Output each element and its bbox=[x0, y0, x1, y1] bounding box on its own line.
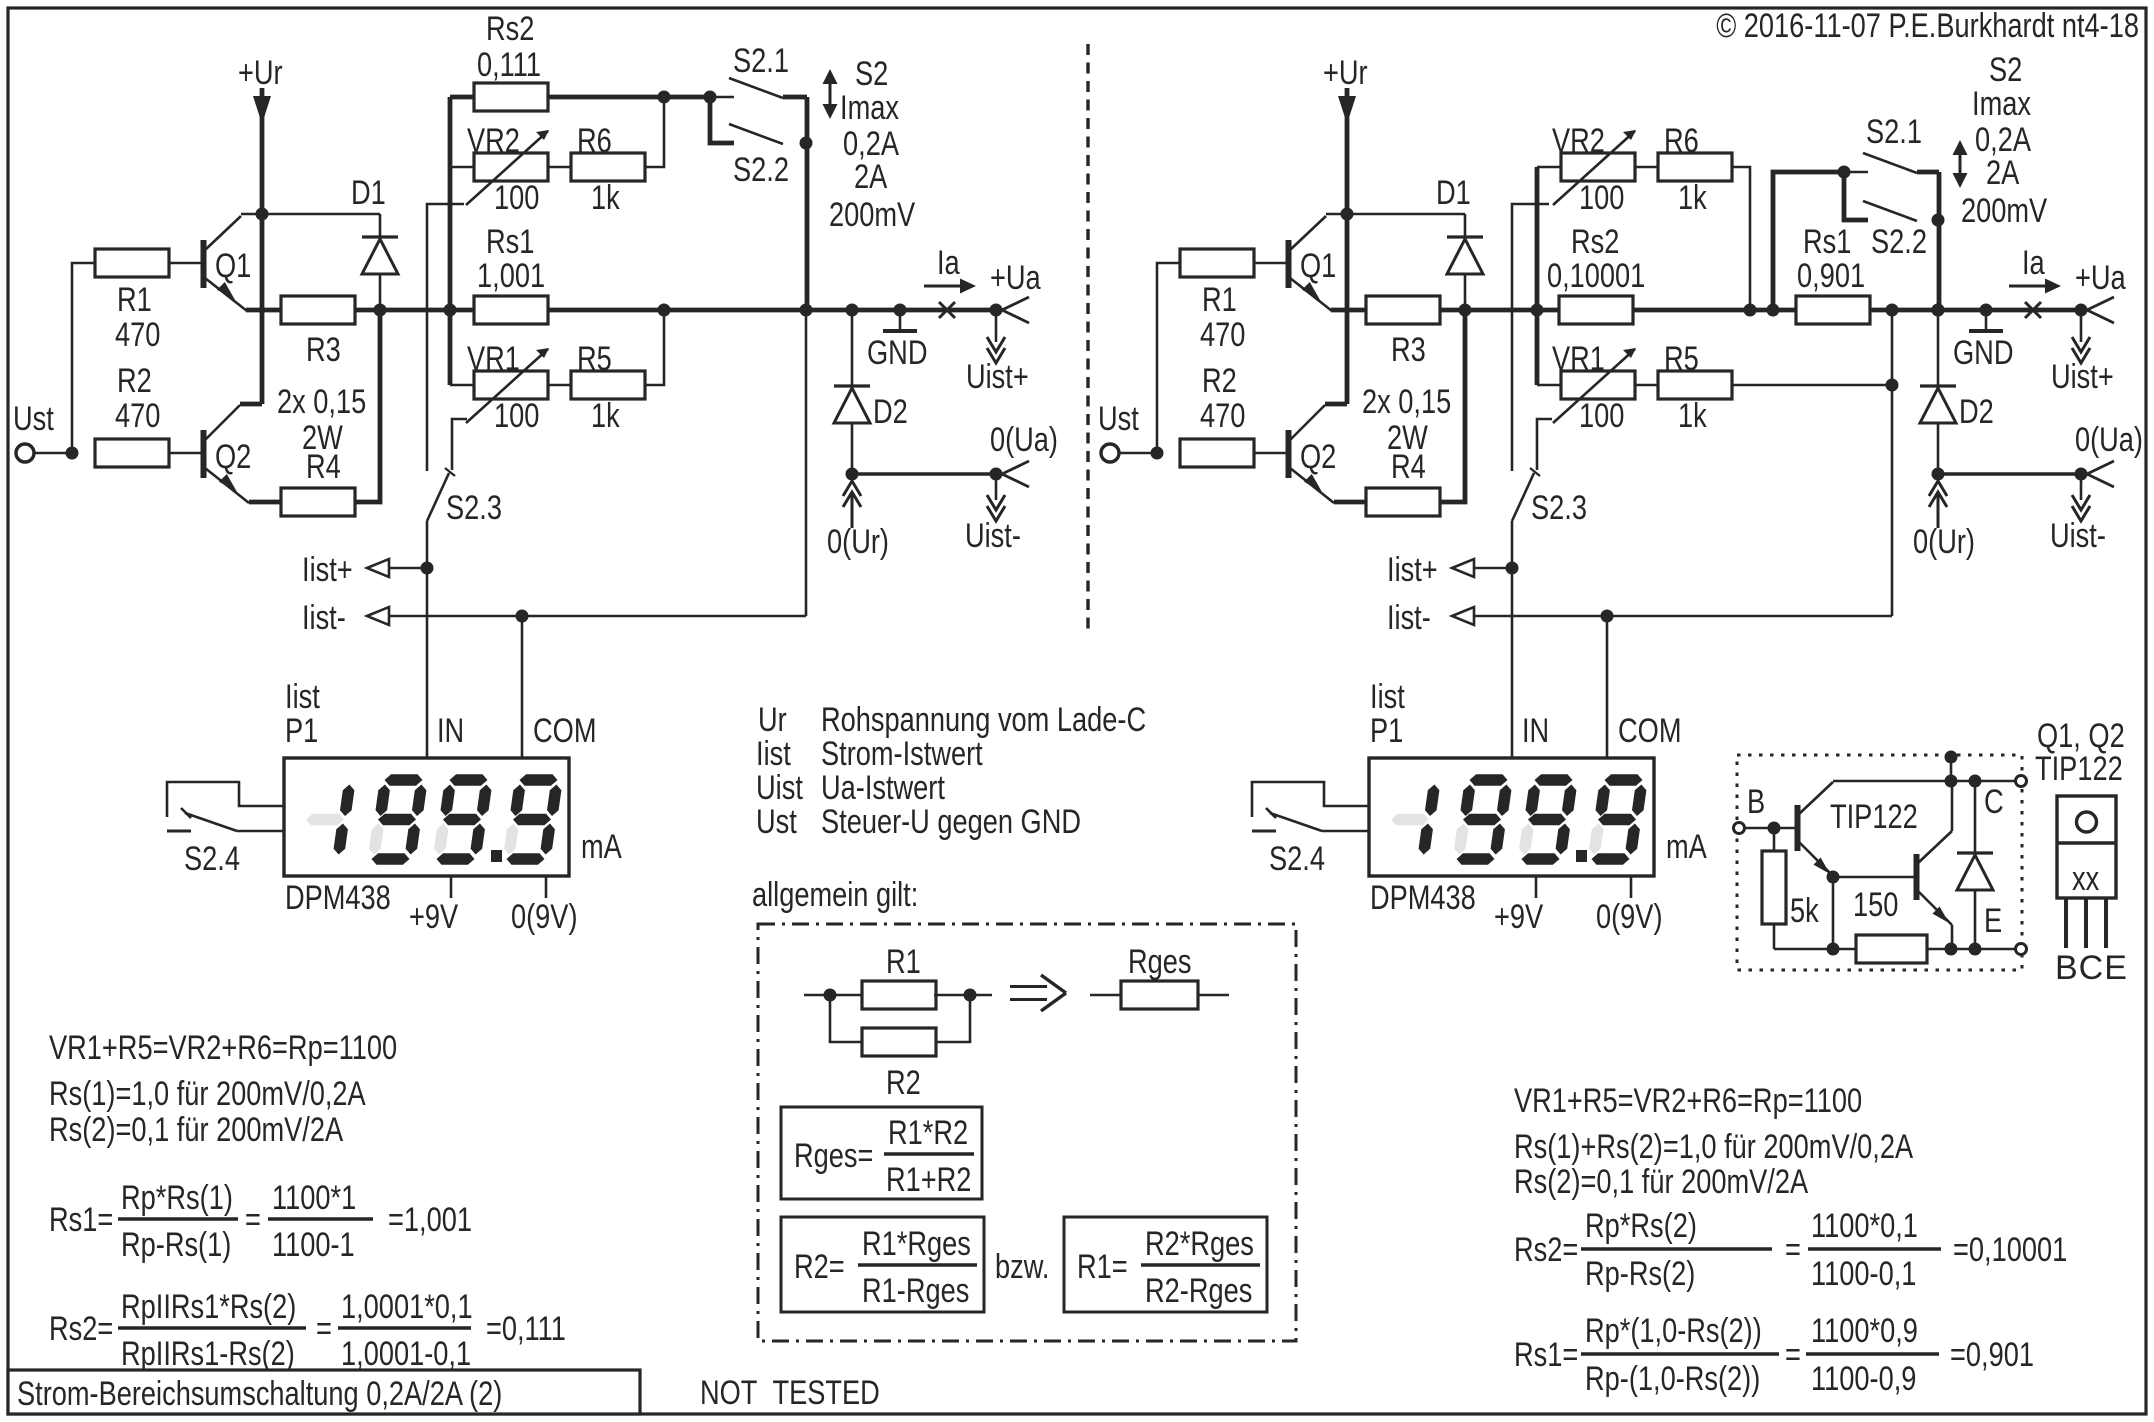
svg-text:Iist-: Iist- bbox=[302, 599, 346, 637]
svg-text:Rs(1)=1,0 für 200mV/0,2A: Rs(1)=1,0 für 200mV/0,2A bbox=[49, 1075, 366, 1113]
svg-text:R1: R1 bbox=[1202, 281, 1237, 319]
junction dot collector node (left) bbox=[256, 208, 269, 221]
svg-text:Ur: Ur bbox=[758, 701, 787, 739]
svg-text:R1*R2: R1*R2 bbox=[888, 1114, 968, 1152]
svg-text:Uist+: Uist+ bbox=[2051, 358, 2114, 396]
symbol measuring point X (right) bbox=[2025, 302, 2041, 318]
svg-text:E: E bbox=[1984, 902, 2002, 940]
svg-text:100: 100 bbox=[494, 179, 539, 217]
svg-text:IN: IN bbox=[1522, 712, 1549, 750]
resistor R3 (right) bbox=[1366, 296, 1440, 324]
wire T1 emitter to 150 rail bbox=[1832, 877, 1835, 949]
resistor R2 (right) bbox=[1180, 439, 1254, 467]
junction dot D2/0(Ua) (left) bbox=[846, 468, 859, 481]
wire VR1 left lead (right) bbox=[1537, 384, 1561, 387]
transistor Q1 (left) bbox=[204, 214, 263, 311]
wire VR1 left lead (left) bbox=[450, 384, 474, 387]
diode D2 (right) bbox=[1920, 310, 1956, 474]
node Ust input terminal (right) bbox=[1101, 444, 1119, 462]
svg-text:P1: P1 bbox=[1370, 712, 1403, 750]
svg-text:mA: mA bbox=[581, 828, 622, 866]
box formula Rges bbox=[781, 1107, 982, 1199]
svg-text:COM: COM bbox=[533, 712, 597, 750]
resistor R4 (left) bbox=[281, 488, 355, 516]
svg-text:RpIIRs1*Rs(2): RpIIRs1*Rs(2) bbox=[121, 1288, 296, 1326]
svg-text:S2.4: S2.4 bbox=[1269, 840, 1325, 878]
junction dot R6 drop (right) bbox=[1744, 304, 1757, 317]
junction dot S2.1 contact (right) bbox=[1838, 166, 1851, 179]
wire R3 to D1 node (left) bbox=[355, 308, 380, 313]
switch S2.1 (left) bbox=[710, 78, 807, 98]
svg-text:R5: R5 bbox=[577, 340, 612, 378]
symbol Uist+ sense arrow (right) bbox=[2072, 310, 2090, 363]
wire COM drop (right) bbox=[1606, 616, 1609, 758]
wire R6 drop to rail (right) bbox=[1732, 167, 1750, 310]
transistor T1 TIP122 bbox=[1798, 782, 1834, 876]
formula Rs1 equation (left) bbox=[49, 1179, 472, 1264]
meter display digits 199.9 (right) bbox=[1391, 774, 1646, 865]
junction dot Iist+ (left) bbox=[421, 562, 434, 575]
svg-text:D2: D2 bbox=[873, 393, 908, 431]
wire sense drop to list- (right) bbox=[1891, 310, 1894, 616]
formula Rs2 equation (right) bbox=[1514, 1207, 2067, 1293]
wire Rges right lead bbox=[1198, 994, 1229, 997]
wire VR1 wiper tap (left) bbox=[452, 419, 467, 470]
wire B to base bbox=[1745, 827, 1796, 830]
junction dot D1/R3/R4 node (right) bbox=[1459, 304, 1472, 317]
junction dot R5 riser (left) bbox=[658, 304, 671, 317]
svg-text:R1: R1 bbox=[886, 943, 921, 981]
svg-text:R2: R2 bbox=[886, 1064, 921, 1102]
node B terminal TIP122 bbox=[1734, 823, 1745, 834]
wire Rs2 left lead (left) bbox=[450, 95, 474, 100]
junction dot S2/rail (left) bbox=[800, 304, 813, 317]
svg-text:Uist: Uist bbox=[756, 769, 803, 807]
wire R2 to Q2 base (left) bbox=[169, 452, 202, 455]
svg-text:mA: mA bbox=[1666, 828, 1707, 866]
wire Q1 emitter rail (left) bbox=[246, 308, 281, 313]
svg-text:1100*0,1: 1100*0,1 bbox=[1811, 1207, 1918, 1245]
resistor R6 (left) bbox=[571, 153, 645, 181]
svg-text:+Ua: +Ua bbox=[2075, 259, 2126, 297]
formula Rs1 equation (right) bbox=[1514, 1312, 2034, 1398]
svg-text:+Ur: +Ur bbox=[1323, 54, 1368, 92]
junction dot T1 emitter/T2 base bbox=[1827, 871, 1840, 884]
svg-text:=: = bbox=[1785, 1336, 1801, 1374]
junction dot S2 branch (left) bbox=[704, 91, 717, 104]
node Iist+ arrow (right) bbox=[1452, 559, 1512, 577]
wire Q2 emitter to R4 (left) bbox=[249, 500, 281, 505]
svg-text:D1: D1 bbox=[1436, 174, 1471, 212]
wire R2 to Q2 base (right) bbox=[1254, 452, 1287, 455]
svg-text:R3: R3 bbox=[1391, 331, 1426, 369]
svg-text:+9V: +9V bbox=[1494, 898, 1543, 936]
switch S2.1 (right) bbox=[1844, 153, 1939, 173]
node Iist- arrow (left) bbox=[367, 607, 389, 625]
resistor R5 (left) bbox=[571, 371, 645, 399]
wire Rs2/VR branch vertical (left) bbox=[448, 97, 453, 385]
pin 0(9V) stub (right) bbox=[1630, 876, 1633, 898]
junction dot demo right bbox=[964, 989, 977, 1002]
junction dot Iist+ (right) bbox=[1506, 562, 1519, 575]
svg-text:Rs(2)=0,1 für 200mV/2A: Rs(2)=0,1 für 200mV/2A bbox=[49, 1111, 343, 1149]
wire S2 bridge right vertical (right) bbox=[1937, 172, 1942, 310]
svg-text:R2: R2 bbox=[1202, 362, 1237, 400]
node Iist+ arrow (left) bbox=[367, 559, 427, 577]
symbol Uist- sense arrow (left) bbox=[987, 474, 1005, 521]
svg-text:DPM438: DPM438 bbox=[1370, 879, 1476, 917]
switch S2.3 (right) bbox=[1512, 468, 1540, 521]
wire R2 demo loop bbox=[830, 995, 970, 1042]
transistor Q1 (right) bbox=[1289, 214, 1348, 311]
svg-text:1k: 1k bbox=[591, 179, 620, 217]
svg-text:Imax: Imax bbox=[1972, 85, 2031, 123]
svg-text:IN: IN bbox=[437, 712, 464, 750]
symbol 0(Ur) arrow (left) bbox=[843, 481, 861, 528]
wire IN drop (right) bbox=[1511, 568, 1514, 758]
wire IN drop (left) bbox=[426, 568, 429, 758]
svg-text:RpIIRs1-Rs(2): RpIIRs1-Rs(2) bbox=[121, 1335, 295, 1373]
node +Ua terminal (left) bbox=[990, 297, 1030, 323]
junction dot T2 emitter bbox=[1945, 943, 1958, 956]
svg-text:VR2: VR2 bbox=[467, 122, 520, 160]
wire R3 to D1 node (right) bbox=[1440, 308, 1465, 313]
svg-text:S2.4: S2.4 bbox=[184, 840, 240, 878]
svg-text:2x 0,15: 2x 0,15 bbox=[1362, 383, 1451, 421]
box title block bbox=[8, 1370, 640, 1414]
svg-text:1,001: 1,001 bbox=[477, 257, 545, 295]
svg-text:1100*1: 1100*1 bbox=[272, 1179, 356, 1217]
symbol 0(Ur) arrow (right) bbox=[1929, 481, 1947, 528]
svg-text:BCE: BCE bbox=[2055, 949, 2128, 987]
svg-text:xx: xx bbox=[2072, 860, 2099, 898]
wire S2.3 to Iist+ node (right) bbox=[1511, 521, 1514, 568]
node E terminal TIP122 bbox=[2016, 944, 2027, 955]
resistor Rs1 (right) bbox=[1796, 296, 1870, 324]
svg-text:2x 0,15: 2x 0,15 bbox=[277, 383, 366, 421]
wire Ust to junction (right) bbox=[1119, 452, 1157, 455]
svg-text:DPM438: DPM438 bbox=[285, 879, 391, 917]
svg-text:R1-Rges: R1-Rges bbox=[862, 1272, 969, 1310]
svg-text:150: 150 bbox=[1853, 886, 1898, 924]
svg-text:Q2: Q2 bbox=[1300, 438, 1336, 476]
junction dot Rs branch (left) bbox=[444, 304, 457, 317]
wire Iist- row (left) bbox=[389, 615, 806, 618]
switch S2.4 (left) bbox=[167, 782, 284, 831]
svg-text:=0,901: =0,901 bbox=[1950, 1336, 2034, 1374]
resistor 5k TIP122 bbox=[1762, 851, 1786, 924]
wire R1 demo right lead bbox=[934, 994, 992, 997]
svg-text:VR1+R5=VR2+R6=Rp=1100: VR1+R5=VR2+R6=Rp=1100 bbox=[1514, 1082, 1862, 1120]
svg-text:100: 100 bbox=[494, 397, 539, 435]
wire T2 collector riser bbox=[1951, 781, 1954, 831]
svg-text:VR1: VR1 bbox=[1552, 340, 1605, 378]
wire R4 up to rail (right) bbox=[1440, 310, 1465, 502]
svg-text:200mV: 200mV bbox=[1961, 192, 2047, 230]
svg-text:Uist-: Uist- bbox=[965, 517, 1021, 555]
svg-text:R2*Rges: R2*Rges bbox=[1145, 1225, 1254, 1263]
svg-text:Rp-Rs(1): Rp-Rs(1) bbox=[121, 1226, 231, 1264]
wire R5 riser to rail (left) bbox=[645, 310, 664, 385]
svg-text:Iist: Iist bbox=[756, 735, 791, 773]
svg-text:R6: R6 bbox=[1664, 122, 1699, 160]
svg-text:Ust: Ust bbox=[13, 400, 54, 438]
node C terminal TIP122 bbox=[2016, 776, 2027, 787]
wire rail Rs2 to Rs1 (right) bbox=[1633, 308, 1796, 313]
wire R1 to Q1 base (right) bbox=[1254, 262, 1287, 265]
svg-text:S2.1: S2.1 bbox=[733, 42, 789, 80]
junction dot D2 branch (right) bbox=[1932, 304, 1945, 317]
switch S2.4 (right) bbox=[1252, 782, 1369, 831]
svg-text:470: 470 bbox=[1200, 397, 1245, 435]
svg-text:TIP122: TIP122 bbox=[1830, 798, 1918, 836]
svg-text:Strom-Istwert: Strom-Istwert bbox=[821, 735, 983, 773]
wire VR2 wiper drop (right) bbox=[1512, 204, 1549, 471]
svg-text:bzw.: bzw. bbox=[995, 1248, 1049, 1286]
symbol Ia current arrow (right) bbox=[2009, 279, 2061, 294]
svg-text:© 2016-11-07 P.E.Burkhardt nt4: © 2016-11-07 P.E.Burkhardt nt4-18 bbox=[1716, 7, 2139, 45]
potentiometer VR1 (left) bbox=[466, 348, 549, 423]
junction dot R5/sense (right) bbox=[1886, 379, 1899, 392]
svg-text:P1: P1 bbox=[285, 712, 318, 750]
svg-text:1,0001-0,1: 1,0001-0,1 bbox=[341, 1335, 471, 1373]
symbol Ia current arrow (left) bbox=[924, 279, 976, 294]
wire list- drop (left) bbox=[805, 310, 808, 616]
box formula R2 bbox=[781, 1217, 984, 1312]
node 0(Ua) terminal (left) bbox=[990, 461, 1030, 487]
box TIP122 internal schematic dotted frame bbox=[1737, 755, 2022, 970]
svg-text:R1=: R1= bbox=[1077, 1248, 1128, 1286]
svg-text:Iist: Iist bbox=[1370, 678, 1405, 716]
wire VR2 left lead (left) bbox=[450, 166, 474, 169]
svg-text:Rges=: Rges= bbox=[794, 1137, 873, 1175]
svg-text:Ust: Ust bbox=[1098, 400, 1139, 438]
wire S2 bridge left vertical (right) bbox=[1773, 172, 1844, 310]
wire Q1 emitter rail (right) bbox=[1331, 308, 1366, 313]
svg-text:1k: 1k bbox=[1678, 397, 1707, 435]
svg-text:R1*Rges: R1*Rges bbox=[862, 1225, 971, 1263]
svg-text:S2.2: S2.2 bbox=[733, 151, 789, 189]
ground GND symbol (left) bbox=[883, 310, 917, 331]
svg-text:S2.1: S2.1 bbox=[1866, 113, 1922, 151]
wire Ust to junction (left) bbox=[34, 452, 72, 455]
svg-text:0,111: 0,111 bbox=[477, 46, 541, 84]
svg-text:Rs2: Rs2 bbox=[486, 10, 534, 48]
svg-text:R4: R4 bbox=[1391, 448, 1426, 486]
svg-text:=: = bbox=[1785, 1231, 1801, 1269]
svg-text:200mV: 200mV bbox=[829, 196, 915, 234]
svg-text:Q2: Q2 bbox=[215, 438, 251, 476]
resistor R3 (left) bbox=[281, 296, 355, 324]
svg-text:0(9V): 0(9V) bbox=[1596, 898, 1663, 936]
svg-text:Rp*Rs(2): Rp*Rs(2) bbox=[1585, 1207, 1697, 1245]
svg-text:S2: S2 bbox=[855, 55, 888, 93]
svg-text:2A: 2A bbox=[854, 158, 888, 196]
formula R1 = R2*Rges / R2-Rges bbox=[1077, 1225, 1260, 1310]
resistor R1 (right) bbox=[1180, 249, 1254, 277]
svg-text:Rp*(1,0-Rs(2)): Rp*(1,0-Rs(2)) bbox=[1585, 1312, 1762, 1350]
wire R4 up to rail (left) bbox=[355, 310, 380, 502]
svg-text:GND: GND bbox=[1953, 334, 2014, 372]
power +Ur arrow (left) bbox=[240, 88, 271, 404]
symbol S2 range arrow (right) bbox=[1953, 140, 1968, 188]
svg-text:R1+R2: R1+R2 bbox=[886, 1161, 971, 1199]
svg-text:Rs(1)+Rs(2)=1,0 für 200mV/0,2A: Rs(1)+Rs(2)=1,0 für 200mV/0,2A bbox=[1514, 1128, 1913, 1166]
divider dashed line between circuits bbox=[1086, 44, 1089, 630]
wire VR2 to R6 (right) bbox=[1635, 166, 1658, 169]
svg-text:=0,10001: =0,10001 bbox=[1953, 1231, 2067, 1269]
resistor R5 (right) bbox=[1658, 371, 1732, 399]
svg-text:Rp-(1,0-Rs(2)): Rp-(1,0-Rs(2)) bbox=[1585, 1360, 1760, 1398]
junction dot S2.2 contact (right) bbox=[1932, 214, 1945, 227]
node Iist- arrow (right) bbox=[1452, 607, 1474, 625]
svg-text:C: C bbox=[1984, 783, 2004, 821]
svg-text:=: = bbox=[245, 1201, 261, 1239]
svg-text:R2=: R2= bbox=[794, 1248, 845, 1286]
svg-text:1100*0,9: 1100*0,9 bbox=[1811, 1312, 1918, 1350]
formula Rges = R1*R2 / R1+R2 bbox=[794, 1114, 974, 1199]
resistor Rges demo bbox=[1121, 981, 1198, 1009]
junction dot diode bottom bbox=[1969, 943, 1982, 956]
svg-text:TIP122: TIP122 bbox=[2035, 750, 2123, 788]
svg-text:Strom-Bereichsumschaltung 0,2A: Strom-Bereichsumschaltung 0,2A/2A (2) bbox=[17, 1375, 502, 1413]
junction dot base/5k bbox=[1768, 822, 1781, 835]
svg-text:Q1: Q1 bbox=[1300, 247, 1336, 285]
svg-text:Uist+: Uist+ bbox=[966, 358, 1029, 396]
node +Ua terminal (right) bbox=[2075, 297, 2115, 323]
meter P1 DPM438 body (right) bbox=[1369, 758, 1654, 876]
svg-text:Rs2=: Rs2= bbox=[49, 1310, 113, 1348]
box formula R1 bbox=[1064, 1217, 1267, 1312]
svg-text:+Ua: +Ua bbox=[990, 259, 1041, 297]
svg-text:R3: R3 bbox=[306, 331, 341, 369]
switch S2.2 (left) bbox=[710, 97, 783, 144]
resistor Rs1 (left) bbox=[474, 296, 548, 324]
svg-text:0(Ur): 0(Ur) bbox=[1913, 523, 1975, 561]
svg-text:Rp-Rs(2): Rp-Rs(2) bbox=[1585, 1255, 1695, 1293]
svg-text:Steuer-U gegen GND: Steuer-U gegen GND bbox=[821, 803, 1081, 841]
wire R5 to sense drop (right) bbox=[1732, 384, 1892, 387]
node 0(Ua) terminal (right) bbox=[2075, 461, 2115, 487]
junction dot sense drop rail (right) bbox=[1886, 304, 1899, 317]
svg-text:Rp*Rs(1): Rp*Rs(1) bbox=[121, 1179, 233, 1217]
wire rail to Rs branch (left) bbox=[380, 308, 474, 313]
resistor R6 (right) bbox=[1658, 153, 1732, 181]
svg-text:S2.3: S2.3 bbox=[446, 489, 502, 527]
svg-text:=0,111: =0,111 bbox=[486, 1310, 566, 1348]
junction dot R6 riser (left) bbox=[658, 91, 671, 104]
svg-text:D1: D1 bbox=[351, 174, 386, 212]
wire bottom rail TIP122 bbox=[1774, 948, 2016, 951]
svg-text:Rges: Rges bbox=[1128, 943, 1192, 981]
svg-text:NOT TESTED: NOT TESTED bbox=[700, 1374, 880, 1412]
diode internal TIP122 bbox=[1957, 781, 1993, 949]
svg-text:B: B bbox=[1747, 783, 1765, 821]
svg-text:100: 100 bbox=[1579, 397, 1624, 435]
wire Rs2 to switch (left) bbox=[548, 95, 710, 100]
junction dot T2 collector bbox=[1945, 775, 1958, 788]
symbol double arrow implies bbox=[1010, 975, 1066, 1011]
wire 0(Ua) row (left) bbox=[852, 472, 996, 475]
power +Ur arrow (right) bbox=[1325, 88, 1356, 404]
wire 5k leads bbox=[1773, 828, 1776, 949]
wire R1 to Q1 base (left) bbox=[169, 262, 202, 265]
svg-text:R4: R4 bbox=[306, 448, 341, 486]
symbol TO-220 package bbox=[2057, 796, 2116, 948]
svg-text:D2: D2 bbox=[1959, 393, 1994, 431]
wire rail Rs1 to output (left) bbox=[548, 308, 996, 313]
svg-text:S2: S2 bbox=[1989, 51, 2022, 89]
svg-text:0(Ua): 0(Ua) bbox=[990, 421, 1058, 459]
svg-text:1k: 1k bbox=[591, 397, 620, 435]
transistor Q2 (left) bbox=[204, 405, 250, 503]
svg-text:Imax: Imax bbox=[840, 89, 899, 127]
junction dot COM drop (left) bbox=[516, 610, 529, 623]
svg-text:100: 100 bbox=[1579, 179, 1624, 217]
wire Rges left lead bbox=[1090, 994, 1121, 997]
junction dot diode top bbox=[1969, 775, 1982, 788]
wire riser to R1 (right) bbox=[1157, 263, 1180, 453]
svg-text:R6: R6 bbox=[577, 122, 612, 160]
resistor Rs2 (left) bbox=[474, 83, 548, 111]
meter P1 DPM438 body (left) bbox=[284, 758, 569, 876]
svg-text:0,10001: 0,10001 bbox=[1547, 257, 1645, 295]
diode D2 (left) bbox=[834, 310, 870, 474]
meter display digits 199.9 (left) bbox=[306, 774, 561, 865]
svg-text:Iist-: Iist- bbox=[1387, 599, 1431, 637]
wire R6 riser to Rs2 row (left) bbox=[645, 97, 664, 167]
wire riser to R1 (left) bbox=[72, 263, 95, 453]
svg-text:Rs2=: Rs2= bbox=[1514, 1231, 1578, 1269]
junction dot COM drop (right) bbox=[1601, 610, 1614, 623]
wire S2 vertical to rail (left) bbox=[805, 97, 810, 310]
svg-text:Ua-Istwert: Ua-Istwert bbox=[821, 769, 945, 807]
svg-text:0(Ua): 0(Ua) bbox=[2075, 421, 2143, 459]
svg-text:VR1: VR1 bbox=[467, 340, 520, 378]
svg-text:R5: R5 bbox=[1664, 340, 1699, 378]
wire Q2 emitter to R4 (right) bbox=[1334, 500, 1366, 505]
symbol Uist- sense arrow (right) bbox=[2072, 474, 2090, 521]
resistor R2 (left) bbox=[95, 439, 169, 467]
junction dot S2 branch (right) bbox=[1767, 304, 1780, 317]
svg-text:Ia: Ia bbox=[2022, 244, 2045, 282]
wire rail to Rs branch (right) bbox=[1465, 308, 1559, 313]
symbol Uist+ sense arrow (left) bbox=[987, 310, 1005, 363]
formula R2 = R1*Rges / R1-Rges bbox=[794, 1225, 977, 1310]
svg-text:470: 470 bbox=[1200, 316, 1245, 354]
svg-text:1,0001*0,1: 1,0001*0,1 bbox=[341, 1288, 473, 1326]
wire VR1 wiper tap (right) bbox=[1537, 419, 1552, 470]
junction dot D2 branch (left) bbox=[846, 304, 859, 317]
svg-text:COM: COM bbox=[1618, 712, 1682, 750]
resistor R2 demo bbox=[862, 1028, 936, 1056]
junction dot VR branch (right) bbox=[1531, 304, 1544, 317]
svg-text:5k: 5k bbox=[1790, 892, 1819, 930]
svg-text:0,901: 0,901 bbox=[1797, 257, 1865, 295]
junction dot R1/R2 split (right) bbox=[1151, 447, 1164, 460]
diode D1 (right) bbox=[1447, 214, 1483, 310]
wire VR branch vertical (right) bbox=[1535, 167, 1540, 385]
wire rail Rs1 to output (right) bbox=[1870, 308, 2081, 313]
junction dot R1/R2 split (left) bbox=[66, 447, 79, 460]
svg-text:S2.3: S2.3 bbox=[1531, 489, 1587, 527]
svg-text:R2-Rges: R2-Rges bbox=[1145, 1272, 1252, 1310]
wire T2 emitter drop bbox=[1951, 925, 1954, 949]
wire C stub to frame bbox=[1950, 756, 1953, 781]
svg-text:+9V: +9V bbox=[409, 898, 458, 936]
svg-text:Ia: Ia bbox=[937, 244, 960, 282]
junction dot S2 bridge/rail (right) bbox=[1932, 304, 1945, 317]
